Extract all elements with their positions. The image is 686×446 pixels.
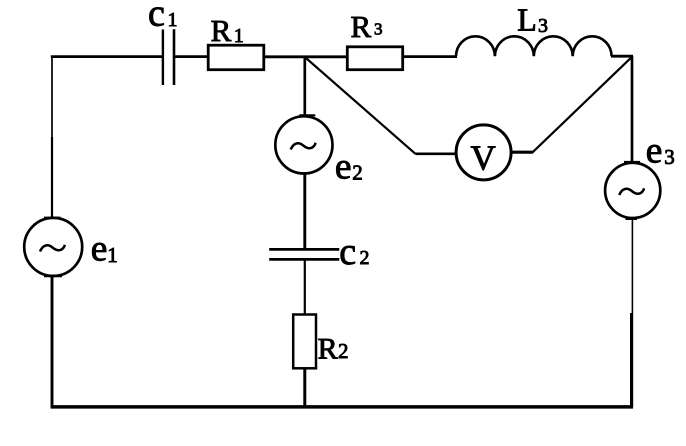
svg-text:e: e <box>646 130 663 171</box>
svg-text:1: 1 <box>107 243 118 267</box>
svg-text:3: 3 <box>538 15 548 37</box>
svg-text:1: 1 <box>168 9 178 31</box>
svg-text:L: L <box>517 1 537 37</box>
svg-text:c: c <box>148 0 165 35</box>
svg-text:c: c <box>339 231 356 273</box>
svg-text:e: e <box>91 229 108 270</box>
svg-text:e: e <box>335 147 352 188</box>
svg-text:R: R <box>211 13 232 48</box>
svg-text:1: 1 <box>234 25 244 47</box>
svg-text:2: 2 <box>352 160 363 184</box>
svg-text:2: 2 <box>360 247 370 269</box>
svg-text:3: 3 <box>664 145 675 169</box>
svg-text:2: 2 <box>338 339 349 363</box>
svg-text:V: V <box>471 139 496 178</box>
svg-text:3: 3 <box>374 20 383 39</box>
svg-text:R: R <box>351 9 372 44</box>
svg-text:R: R <box>318 332 338 365</box>
